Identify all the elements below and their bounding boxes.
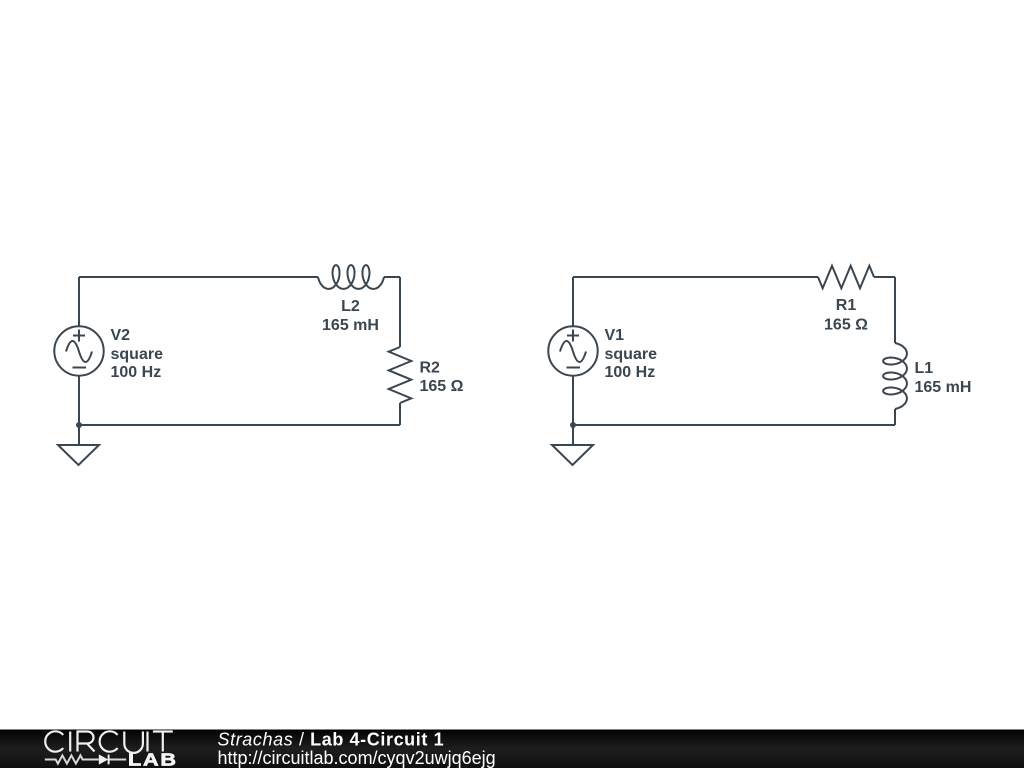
svg-text:165 mH: 165 mH xyxy=(322,317,379,334)
svg-text:V2: V2 xyxy=(111,327,131,344)
inductor L2 xyxy=(318,265,384,289)
wire V1 bottom stub xyxy=(572,376,574,425)
junction dot node V2- xyxy=(76,422,82,428)
svg-text:Strachas / Lab 4-Circuit 1: Strachas / Lab 4-Circuit 1 xyxy=(218,730,445,750)
label L1 xyxy=(915,360,972,396)
ground (right) xyxy=(572,425,574,445)
logo diode xyxy=(99,754,108,764)
svg-text:L2: L2 xyxy=(341,298,360,315)
svg-text:square: square xyxy=(605,346,658,363)
wire xyxy=(874,276,895,278)
svg-text:100 Hz: 100 Hz xyxy=(111,364,162,381)
inductor L1 xyxy=(883,343,907,409)
voltage source V1 xyxy=(548,326,597,375)
wire right vertical (above L1) xyxy=(894,277,896,343)
label R2 xyxy=(420,360,464,396)
svg-text:L1: L1 xyxy=(915,360,934,377)
label V1 xyxy=(605,327,658,381)
ground (left) xyxy=(78,425,80,445)
wire top left circuit xyxy=(79,276,318,278)
junction dot node V1- xyxy=(570,422,576,428)
svg-text:165 Ω: 165 Ω xyxy=(824,317,868,334)
wire V2 bottom stub xyxy=(78,376,80,425)
svg-text:LAB: LAB xyxy=(128,750,178,768)
wire V2 top stub xyxy=(78,277,80,326)
svg-text:165 Ω: 165 Ω xyxy=(420,378,464,395)
voltage source V2 xyxy=(54,326,103,375)
svg-text:R1: R1 xyxy=(836,297,857,314)
CircuitLab logo word CIRCUIT xyxy=(45,731,173,753)
svg-text:V1: V1 xyxy=(605,327,625,344)
wire right vertical (left circuit, above R2) xyxy=(399,277,401,347)
svg-text:square: square xyxy=(111,346,164,363)
wire below L1 xyxy=(894,409,896,425)
svg-text:100 Hz: 100 Hz xyxy=(605,364,656,381)
label R1 xyxy=(824,297,868,334)
resistor R1 xyxy=(818,266,874,289)
svg-text:R2: R2 xyxy=(420,360,441,377)
wire bottom (left circuit) xyxy=(79,424,400,426)
wire V1 top stub xyxy=(572,277,574,326)
wire top (right circuit) xyxy=(573,276,818,278)
logo squiggle wire with resistor xyxy=(45,755,126,763)
label L2 xyxy=(322,298,379,334)
resistor R2 xyxy=(389,347,412,403)
wire xyxy=(384,276,400,278)
svg-text:165 mH: 165 mH xyxy=(915,379,972,396)
svg-text:http://circuitlab.com/cyqv2uwj: http://circuitlab.com/cyqv2uwjq6ejg xyxy=(218,748,496,768)
wire below R2 xyxy=(399,403,401,425)
label V2 xyxy=(111,327,164,381)
wire bottom (right circuit) xyxy=(573,424,895,426)
